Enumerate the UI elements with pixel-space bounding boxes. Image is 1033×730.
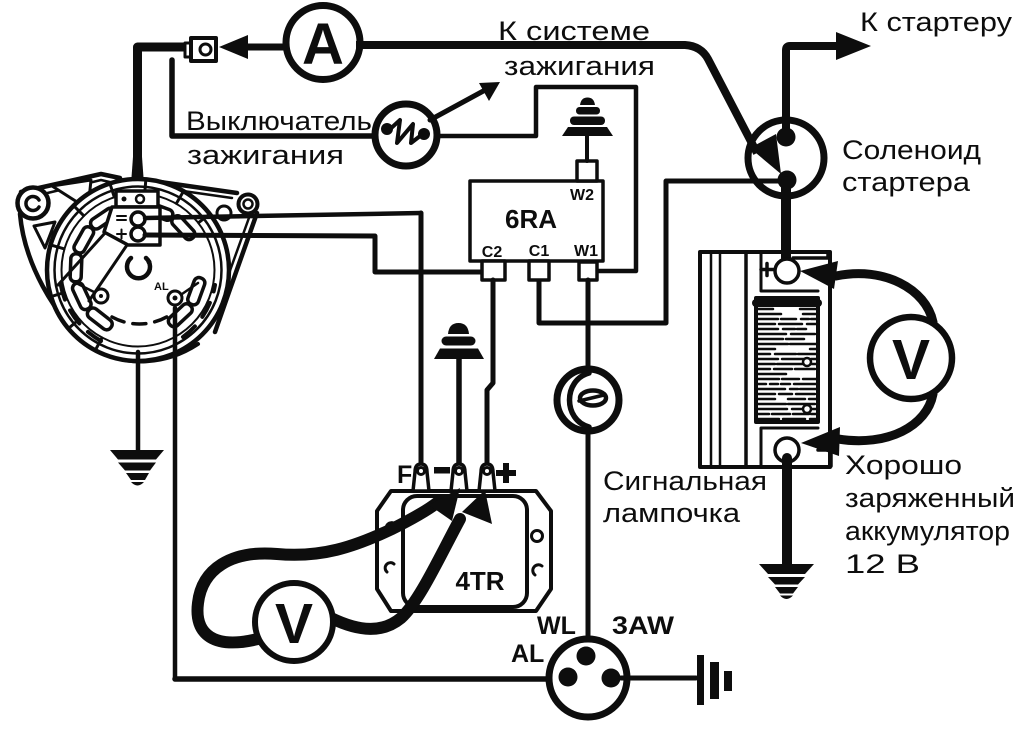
6RA pin W2 bbox=[577, 161, 597, 181]
connector (bullet plug) bbox=[185, 38, 216, 61]
battery + terminal bbox=[775, 259, 799, 283]
ground: alternator case bbox=[110, 450, 164, 486]
svg-text:стартера: стартера bbox=[842, 167, 971, 197]
solenoid contacts bbox=[777, 128, 797, 190]
svg-text:AL: AL bbox=[511, 640, 544, 668]
voltmeter PV1 (at regulator) bbox=[255, 583, 333, 661]
svg-text:WL: WL bbox=[537, 612, 576, 640]
svg-text:C2: C2 bbox=[482, 244, 503, 261]
svg-text:Выключатель: Выключатель bbox=[186, 106, 372, 136]
label: Соленоид стартера bbox=[842, 135, 981, 197]
svg-text:6RA: 6RA bbox=[505, 204, 557, 234]
wire: alternator AL terminal to bottom rail bbox=[173, 308, 178, 679]
voltmeter PV2 (at battery) bbox=[870, 317, 952, 399]
alternator screw AL terminal bbox=[154, 281, 198, 305]
alternator inner dash ring bbox=[60, 280, 215, 341]
voltmeter lead loop to F terminal bbox=[197, 488, 460, 642]
arrow: switch output to ignition system bbox=[430, 82, 500, 120]
label: К системе зажигания bbox=[498, 16, 655, 81]
label 3AW bbox=[612, 612, 674, 640]
svg-text:К стартеру: К стартеру bbox=[860, 7, 1013, 37]
wire: alternator case to ground bbox=[136, 352, 141, 450]
svg-text:К системе: К системе bbox=[498, 16, 650, 46]
wire: solenoid to battery + (thick) bbox=[781, 181, 791, 262]
6RA pin C1 bbox=[529, 261, 549, 280]
wire: ammeter to connector with arrow bbox=[219, 35, 290, 59]
voltmeter lead to + terminal bbox=[331, 490, 492, 629]
wire: alternator B+ feed to connector (thick) bbox=[131, 47, 190, 191]
relay 6RA bbox=[470, 181, 603, 261]
wire: signal lamp to 3AW bbox=[586, 430, 591, 652]
label minus bbox=[434, 467, 450, 474]
voltmeter lead to battery - bbox=[801, 394, 933, 456]
label AL bbox=[511, 640, 544, 668]
wire: ignition switch to 6RA W1 (hood loop) bbox=[438, 87, 636, 271]
ground: battery bbox=[759, 564, 814, 599]
wire: 6RA C2 to 4TR + terminal bbox=[487, 280, 493, 462]
svg-text:4TR: 4TR bbox=[455, 566, 504, 596]
antenna symbol at 4TR N terminal bbox=[434, 323, 484, 463]
wire: 3AW to chassis bars bbox=[621, 676, 696, 681]
wire: alternator + terminal to C2 net (lower) bbox=[145, 235, 493, 272]
svg-text:Хорошо: Хорошо bbox=[845, 450, 962, 480]
alternator rim ticks bbox=[52, 180, 209, 349]
alternator terminal block bbox=[58, 191, 160, 301]
svg-text:W1: W1 bbox=[574, 243, 598, 260]
svg-text:C1: C1 bbox=[529, 243, 550, 260]
voltmeter lead to battery + bbox=[800, 261, 933, 322]
wire: battery - to ground (thick) bbox=[782, 458, 792, 564]
label WL bbox=[537, 612, 576, 640]
wire: connector to ignition switch bbox=[172, 60, 376, 136]
4TR terminal N bbox=[451, 464, 467, 491]
regulator 4TR bbox=[377, 491, 551, 611]
label: Хорошо заряженный аккумулятор 12 В bbox=[845, 450, 1015, 579]
wire: upper alternator line down to 4TR F terminal bbox=[419, 213, 424, 462]
antenna symbol above W2 bbox=[562, 98, 613, 162]
wire: alternator N terminal to 6RA C2 vertical (upper) bbox=[145, 213, 421, 218]
6RA pin W1 bbox=[579, 262, 597, 280]
connector 3AW bbox=[549, 639, 627, 717]
alternator hub bbox=[127, 258, 152, 278]
battery plate hatching bbox=[758, 309, 816, 419]
chassis symbol (sideways bars) bbox=[697, 655, 732, 705]
4TR terminal + bbox=[479, 464, 495, 491]
ammeter A1 bbox=[286, 6, 360, 80]
svg-text:Сигнальная: Сигнальная bbox=[603, 466, 767, 496]
svg-text:F: F bbox=[397, 461, 412, 489]
solenoid K1 (starter solenoid) bbox=[748, 120, 824, 196]
label: Выключатель зажигания bbox=[186, 106, 372, 170]
6RA pin C2 bbox=[482, 261, 505, 280]
svg-text:AL: AL bbox=[154, 281, 169, 293]
label: К стартеру bbox=[860, 7, 1013, 37]
wire: bottom rail to 3AW bbox=[175, 676, 550, 682]
alternator screw (left) bbox=[74, 282, 108, 303]
alternator G1 housing bbox=[18, 174, 258, 361]
svg-text:аккумулятор: аккумулятор bbox=[845, 516, 1010, 546]
alternator body circles bbox=[47, 179, 229, 361]
battery - terminal bbox=[775, 438, 799, 462]
svg-text:12 В: 12 В bbox=[845, 549, 920, 579]
label F bbox=[397, 461, 412, 489]
svg-text:зажигания: зажигания bbox=[504, 51, 655, 81]
alternator vent slots bbox=[70, 201, 206, 332]
svg-text:V: V bbox=[892, 328, 930, 392]
svg-text:V: V bbox=[275, 592, 313, 656]
4TR terminal F bbox=[413, 464, 429, 491]
wire: to starter (thick, with arrow) bbox=[786, 32, 871, 137]
wire: C1 net to solenoid lower contact bbox=[539, 181, 783, 323]
svg-text:A: A bbox=[302, 12, 344, 77]
label: Сигнальная лампочка bbox=[603, 466, 767, 528]
battery GB1 bbox=[700, 252, 831, 467]
wire: ammeter to ignition-system branch (thick) bbox=[356, 45, 781, 174]
svg-text:W2: W2 bbox=[570, 187, 594, 204]
label plus bbox=[496, 463, 516, 483]
wire: 6RA W1 to signal lamp bbox=[586, 280, 591, 370]
svg-text:зажигания: зажигания bbox=[187, 140, 344, 170]
signal lamp HL1 bbox=[557, 369, 619, 431]
svg-text:Соленоид: Соленоид bbox=[842, 135, 981, 165]
svg-text:заряженный: заряженный bbox=[845, 483, 1015, 513]
svg-text:лампочка: лампочка bbox=[603, 498, 741, 528]
ignition switch S1 bbox=[375, 104, 437, 166]
svg-text:3AW: 3AW bbox=[612, 612, 674, 640]
